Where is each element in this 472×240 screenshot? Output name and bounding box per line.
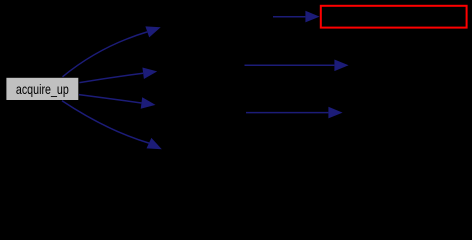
node acquire_up (gray box) (6, 78, 78, 100)
node highlighted (red box, top right) (321, 6, 467, 28)
edge 4: acquire_up to bottom node (62, 101, 162, 149)
edge 1: acquire_up to top node (63, 26, 161, 76)
edge 6: middle horizontal arrow (245, 60, 349, 72)
edge 5: into red box (273, 11, 320, 23)
edge 7: lower horizontal arrow (246, 107, 343, 119)
edge 3: acquire_up to third node (79, 95, 156, 109)
svg-text:acquire_up: acquire_up (16, 81, 69, 97)
edge 2: acquire_up to second node (80, 68, 158, 83)
